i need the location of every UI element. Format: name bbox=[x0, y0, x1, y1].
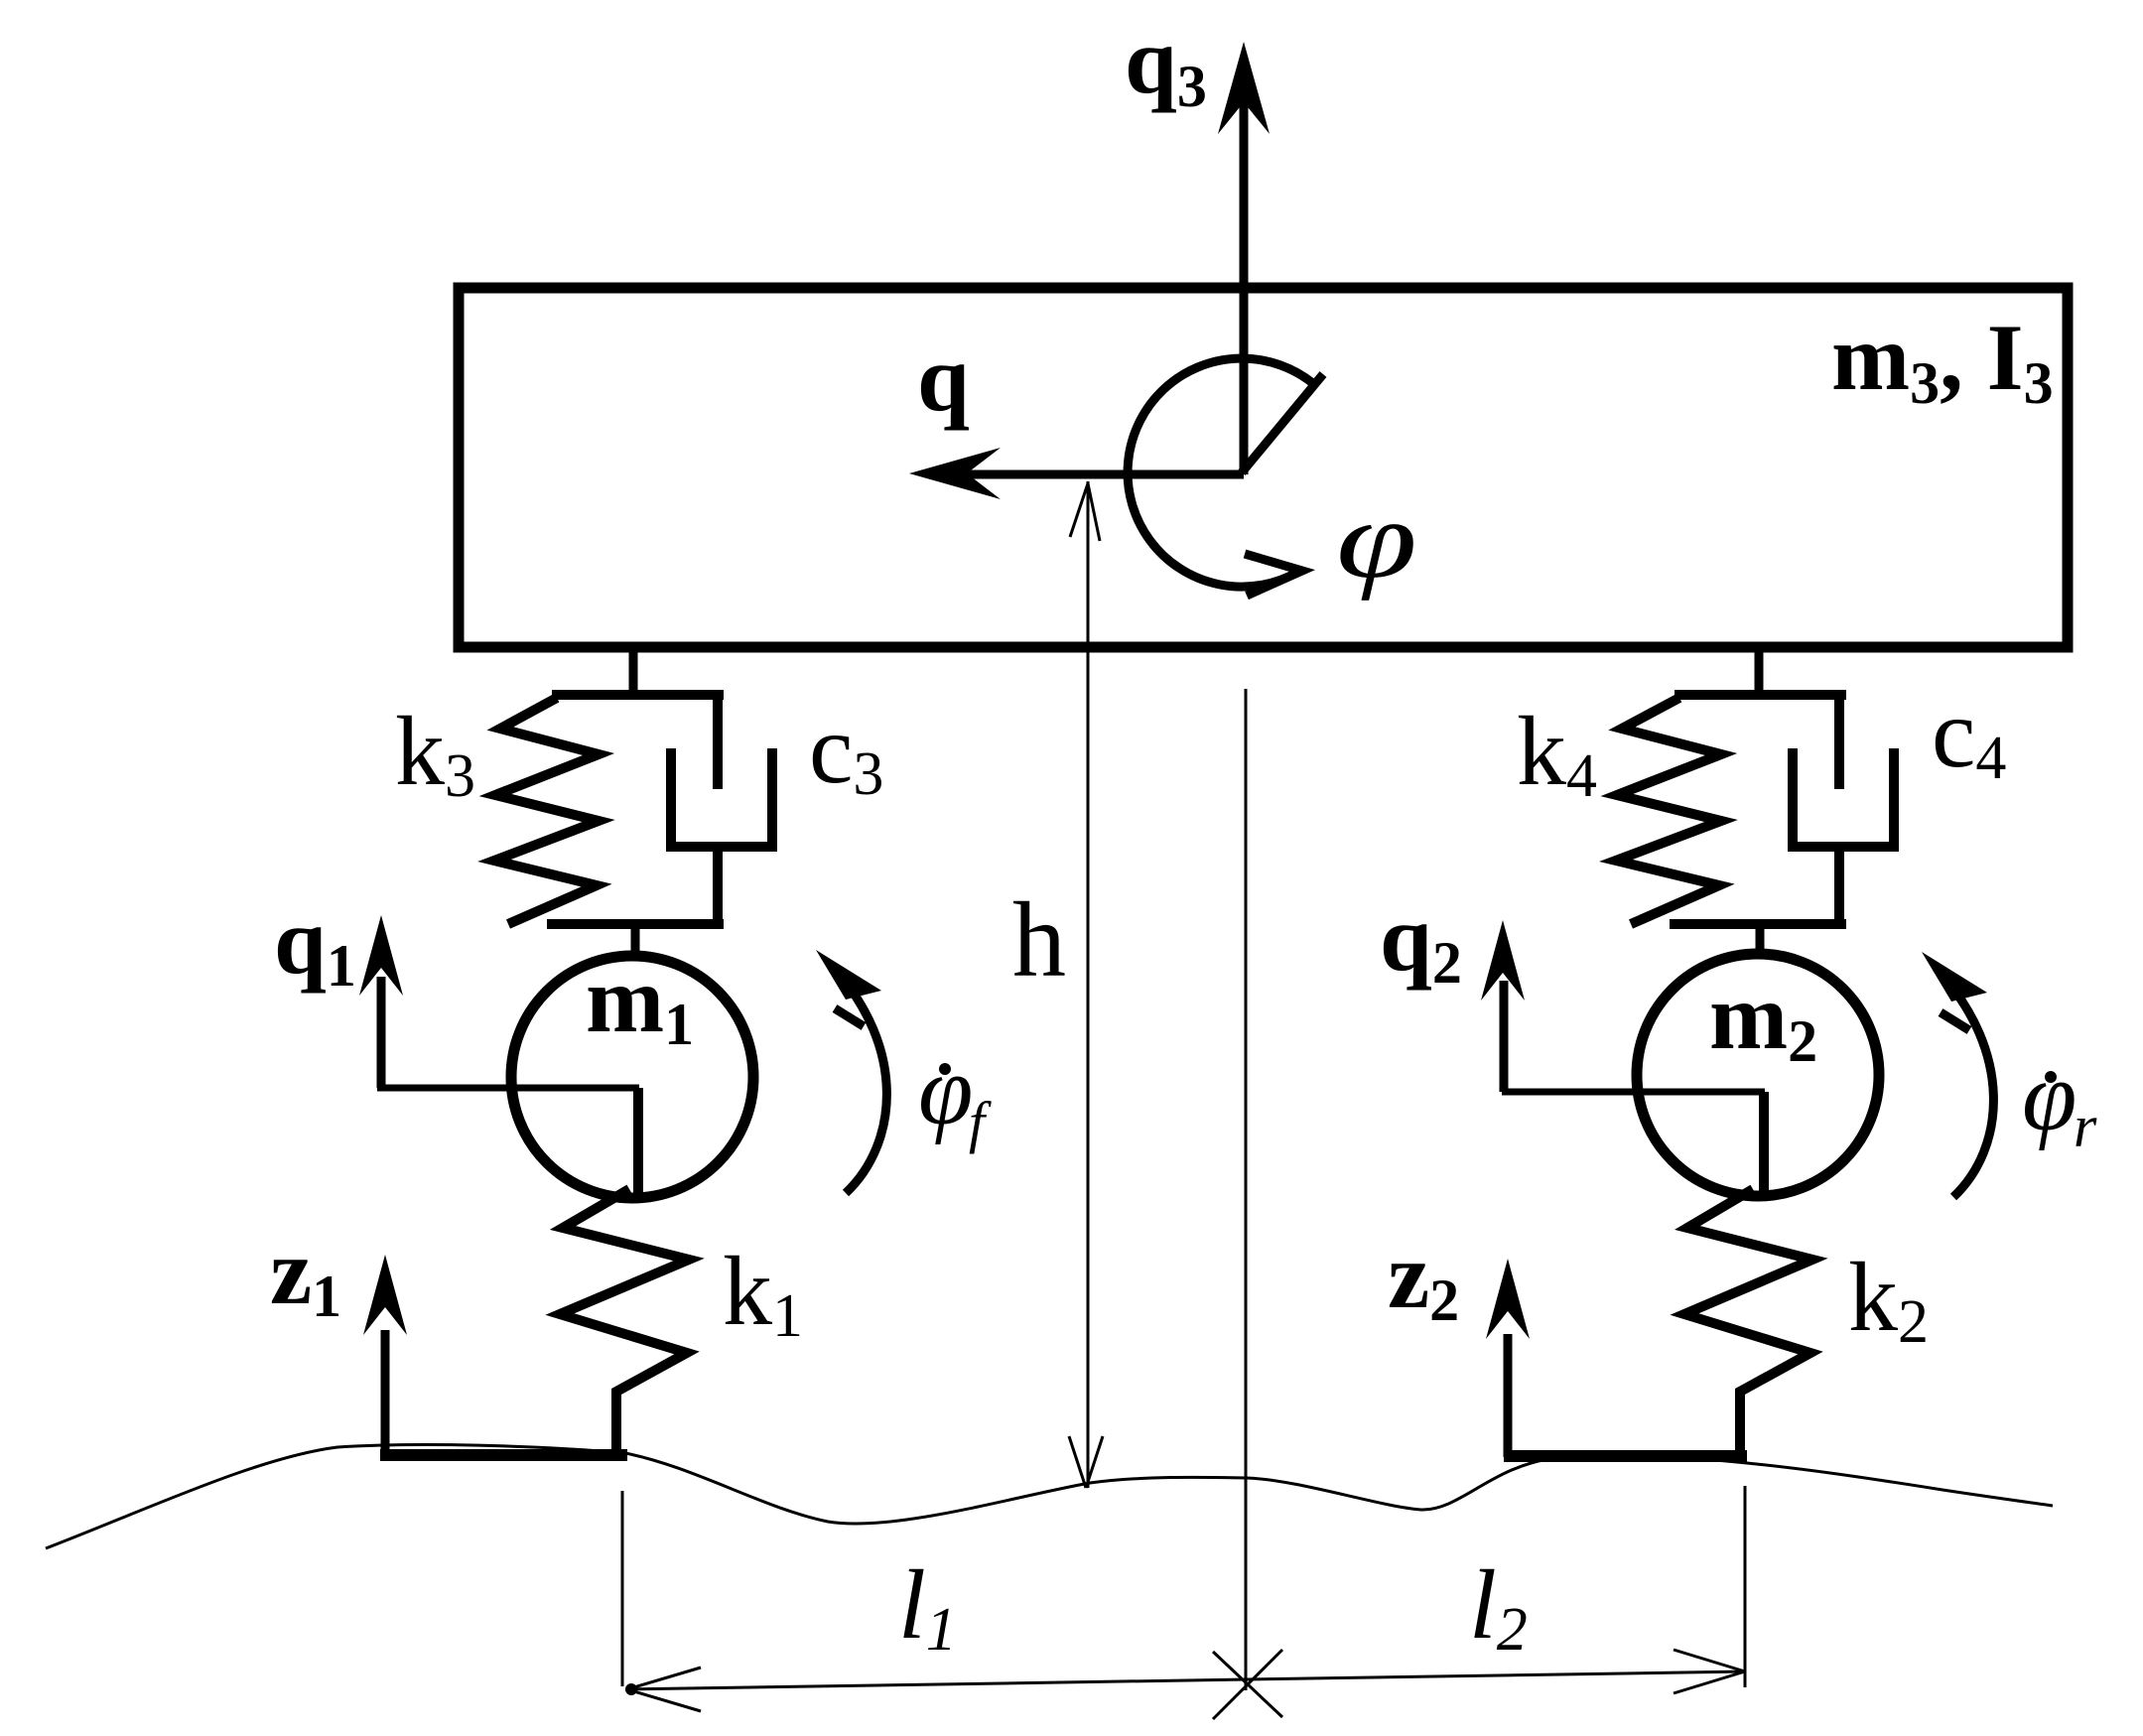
wheel mass m1 bbox=[511, 956, 753, 1198]
svg-text:h: h bbox=[1012, 881, 1066, 1000]
body mass m3 rectangle bbox=[459, 288, 2068, 647]
ground profile curve bbox=[46, 1445, 2053, 1548]
svg-text:φ: φ bbox=[2022, 1041, 2076, 1151]
connector stub to wheel m2 bbox=[1756, 924, 1765, 961]
angular velocity arc phi_f bbox=[832, 966, 886, 1193]
h dimension line bbox=[1069, 481, 1103, 1488]
rotation arc phi bbox=[1128, 358, 1323, 596]
q3 axis arrow bbox=[1218, 42, 1270, 474]
connector stub to wheel m1 bbox=[631, 924, 640, 961]
bottom bar right suspension bbox=[1670, 919, 1846, 929]
dimension line l1-l2 bbox=[625, 1671, 1745, 1689]
z2 axis arrow bbox=[1486, 1259, 1530, 1457]
spring k4 bbox=[1616, 698, 1721, 924]
center crossing marks bbox=[1213, 1650, 1282, 1719]
svg-text:q: q bbox=[917, 326, 970, 431]
connector stub from body to right suspension bbox=[1755, 647, 1764, 697]
damper c3 bbox=[666, 695, 777, 924]
q1 axis arrow bbox=[359, 915, 403, 1088]
tire spring k1 bbox=[560, 1189, 689, 1452]
angular velocity arc phi_r bbox=[1938, 970, 1993, 1197]
dimension l1 extension line bbox=[621, 1491, 624, 1686]
z1 axis arrow bbox=[363, 1255, 407, 1457]
right dimension arrowhead bbox=[1674, 1650, 1745, 1693]
tire spring k2 bbox=[1684, 1189, 1812, 1452]
connector stub from body to left suspension bbox=[629, 647, 638, 697]
m1 crosshair bbox=[377, 1085, 639, 1092]
spring k3 bbox=[494, 698, 599, 924]
ground contact bar right bbox=[1504, 1450, 1747, 1462]
top bar left suspension bbox=[552, 690, 724, 700]
m2 crosshair bbox=[1502, 1089, 1765, 1096]
bottom bar left suspension bbox=[547, 919, 724, 929]
left dimension arrowhead bbox=[627, 1668, 701, 1711]
damper c4 bbox=[1788, 695, 1899, 924]
center reference line bbox=[1245, 689, 1248, 1690]
dimension l2 extension line bbox=[1744, 1486, 1747, 1687]
q axis arrow bbox=[909, 448, 1244, 499]
wheel mass m2 bbox=[1637, 954, 1879, 1196]
svg-text:φ: φ bbox=[1336, 478, 1417, 601]
ground contact bar left bbox=[380, 1449, 627, 1461]
svg-text:r: r bbox=[2074, 1094, 2097, 1159]
q2 axis arrow bbox=[1481, 920, 1525, 1092]
svg-text:φ: φ bbox=[918, 1035, 973, 1145]
top bar right suspension bbox=[1674, 690, 1846, 700]
svg-text:m3, I3: m3, I3 bbox=[1831, 305, 2054, 416]
